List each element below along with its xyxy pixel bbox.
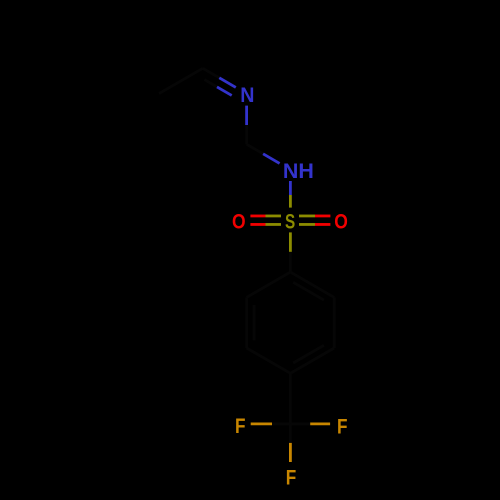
bond S=O right, lower line, sulfur half bbox=[299, 223, 315, 226]
benzene bond C6'-C1' bbox=[247, 272, 291, 297]
bond C4'-C(F3) bbox=[289, 373, 292, 424]
bond S=O right, lower line, oxygen half bbox=[315, 223, 330, 226]
benzene bond C1'=C2' inner double line bbox=[293, 282, 324, 300]
benzene bond C4'-C5' bbox=[247, 348, 291, 373]
bond CH2-N(H), carbon half bbox=[247, 144, 264, 154]
benzene bond C5'=C6' inner double line bbox=[253, 305, 256, 340]
benzene bond C3'=C4' main line bbox=[290, 348, 334, 373]
benzene bond C2'-C3' bbox=[333, 297, 336, 348]
svg-text:N: N bbox=[240, 83, 254, 107]
bond CH3-CH bbox=[159, 68, 203, 93]
benzene bond C3'=C4' inner double line bbox=[293, 345, 324, 363]
bond N=CH...N-CH2, nitrogen half bbox=[245, 106, 248, 125]
benzene bond C5'=C6' main line bbox=[245, 297, 248, 348]
benzene bond C1'=C2' main line bbox=[290, 272, 334, 297]
bond S=O right, upper line, sulfur half bbox=[299, 215, 315, 218]
svg-text:F: F bbox=[235, 414, 246, 438]
bond C(F3)-F right, fluorine half bbox=[310, 422, 330, 425]
bond S=O right, upper line, oxygen half bbox=[315, 215, 330, 218]
bond S=O left, lower line, sulfur half bbox=[266, 223, 282, 226]
svg-text:S: S bbox=[285, 209, 295, 233]
svg-text:NH: NH bbox=[283, 159, 314, 183]
bond S=O left, upper line, sulfur half bbox=[266, 215, 282, 218]
bond N-CH2, carbon half bbox=[245, 125, 248, 144]
bond S=O left, upper line, oxygen half bbox=[250, 215, 265, 218]
bond S-C1' (benzene top), sulfur half bbox=[289, 232, 292, 252]
bond N(H)-S, sulfur half bbox=[289, 195, 292, 208]
svg-text:O: O bbox=[232, 209, 246, 233]
bond C(F3)-F bottom, carbon half bbox=[289, 424, 292, 443]
bond CH=N imine second line, carbon half bbox=[204, 80, 217, 87]
svg-text:F: F bbox=[337, 415, 348, 439]
bond N(H)-S, nitrogen half bbox=[289, 181, 292, 195]
bond CH2-N(H), nitrogen half bbox=[263, 154, 280, 164]
bond S=O left, lower line, oxygen half bbox=[250, 223, 265, 226]
bond CH=N imine main line, carbon half bbox=[203, 68, 220, 78]
bond C(F3)-F left, carbon half bbox=[272, 422, 290, 425]
svg-text:O: O bbox=[334, 209, 348, 233]
bond C(F3)-F right, carbon half bbox=[290, 422, 310, 425]
bond C(F3)-F bottom, fluorine half bbox=[289, 443, 292, 462]
bond CH=N imine second line, nitrogen half bbox=[217, 87, 232, 96]
bond C(F3)-F left, fluorine half bbox=[251, 422, 272, 425]
svg-text:F: F bbox=[286, 466, 297, 490]
bond CH=N imine main line, nitrogen half bbox=[219, 78, 236, 88]
bond S-C1' (benzene top), carbon half bbox=[289, 252, 292, 272]
